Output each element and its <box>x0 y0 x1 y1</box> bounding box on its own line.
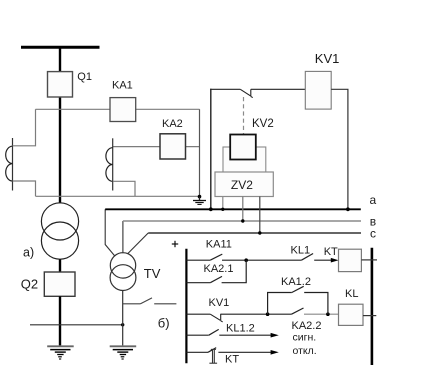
svg-text:KV1: KV1 <box>209 297 230 309</box>
relay KA1 <box>110 80 136 122</box>
current transformer TA1 <box>6 138 13 191</box>
svg-text:KV2: KV2 <box>252 118 274 130</box>
node neutral-TV <box>121 323 124 326</box>
svg-text:KL1: KL1 <box>291 245 311 257</box>
svg-text:сигн.: сигн. <box>293 332 317 344</box>
svg-text:KL1.2: KL1.2 <box>226 322 255 334</box>
relay KL <box>339 304 364 325</box>
svg-text:a): a) <box>23 245 34 259</box>
breaker Q2 <box>21 272 75 296</box>
dashed link KV2 <box>243 97 245 134</box>
svg-text:KL: KL <box>345 288 358 300</box>
wire TV ground lead <box>122 291 124 346</box>
svg-text:с: с <box>370 226 376 240</box>
svg-text:KV1: KV1 <box>315 51 340 66</box>
contact KL1 blade <box>301 254 313 261</box>
wire row4 left <box>186 334 208 336</box>
relay KT <box>339 249 362 271</box>
wire feeder mid <box>59 259 61 272</box>
svg-text:KA2.1: KA2.1 <box>204 263 234 275</box>
label plus <box>172 243 178 245</box>
contact KL1.2 blade <box>209 329 219 335</box>
wire KV2 rail <box>210 89 212 210</box>
svg-text:KA2.2: KA2.2 <box>292 320 322 332</box>
wire TV secondary out <box>154 303 176 305</box>
svg-text:TV: TV <box>144 266 161 281</box>
bus a <box>105 208 361 210</box>
wire KL out <box>363 315 376 317</box>
bus b <box>123 220 361 222</box>
contact KT blade <box>208 348 216 353</box>
node stub c <box>258 231 261 234</box>
node rail-bus a <box>209 207 213 211</box>
wire TV lead phase a <box>105 209 115 256</box>
current transformer TA2 <box>106 138 113 190</box>
relay KV2 <box>252 118 274 130</box>
wire ZV2 stub b <box>242 197 244 222</box>
timer symbol KT <box>209 349 217 363</box>
wire row1 to KT <box>314 259 332 261</box>
wire TA2 secondary bottom <box>113 181 135 196</box>
wire row3 left <box>186 313 210 315</box>
wire KA2 line <box>113 146 200 148</box>
contact KV2 blade (NC) <box>240 89 253 97</box>
contact KA2.1 blade <box>210 276 222 282</box>
contact KV1 blade (NC) <box>210 314 222 322</box>
contact KA2.2 blade <box>292 308 304 314</box>
breaker Q1 <box>48 71 92 97</box>
node row1 <box>244 258 248 262</box>
relay KV2 box <box>230 135 256 160</box>
wire row3 right <box>304 313 339 315</box>
node ground junction <box>198 195 202 199</box>
transformer T1 <box>41 203 78 259</box>
ground T1 <box>47 346 73 359</box>
wire KT out <box>361 259 377 261</box>
wire row2 right <box>222 260 247 283</box>
svg-text:KA1: KA1 <box>112 80 133 92</box>
ground relay common <box>193 197 206 205</box>
svg-text:KA11: KA11 <box>206 239 232 251</box>
node stub a <box>221 208 224 211</box>
wire feeder lower <box>59 296 61 345</box>
wire TV lead phase c <box>128 233 148 253</box>
branch KA1.2 <box>268 286 328 314</box>
wire row1 mid <box>222 259 301 261</box>
wire TA1 secondary bottom <box>13 181 36 196</box>
svg-text:Q2: Q2 <box>21 277 38 292</box>
wire KA drop to ground <box>199 109 201 197</box>
wire ZV2 stub a <box>222 197 224 210</box>
svg-text:откл.: откл. <box>293 345 317 357</box>
wire KV1 to bus a <box>331 89 348 209</box>
busbar top <box>21 46 100 49</box>
wire neutral link <box>30 324 123 326</box>
svg-text:б): б) <box>158 316 170 331</box>
svg-text:KA1.2: KA1.2 <box>281 276 311 288</box>
node KV1-bus a <box>346 207 350 211</box>
wire row1 left <box>186 259 210 261</box>
svg-text:KT: KT <box>225 354 239 366</box>
wire row4 arrow <box>219 334 271 336</box>
wire TA1 secondary top <box>13 109 36 146</box>
wire feeder upper <box>59 47 61 203</box>
arrow into KT <box>331 258 339 263</box>
node row3 right <box>326 312 330 316</box>
voltage transformer TV <box>110 253 161 291</box>
svg-text:KA2: KA2 <box>162 118 183 130</box>
device ZV2 <box>215 172 273 197</box>
rail right <box>371 248 374 365</box>
svg-text:a: a <box>370 193 377 207</box>
wire row5 left <box>186 351 208 353</box>
wire secondary return <box>36 195 200 197</box>
relay KA2 <box>160 118 186 159</box>
wire row3 mid <box>221 313 292 315</box>
wire ZV2 stub c <box>259 197 261 234</box>
rail left <box>185 249 187 363</box>
ground TV <box>110 346 137 359</box>
wire contact feed <box>210 88 240 90</box>
svg-text:KT: KT <box>324 246 338 258</box>
svg-text:ZV2: ZV2 <box>231 178 253 192</box>
wire row5 arrow <box>218 351 271 353</box>
contact KA11 blade <box>210 254 222 260</box>
bus c <box>148 232 361 234</box>
plinth KV2 <box>223 147 266 172</box>
wire contact to KV1 <box>251 88 305 90</box>
node stub b <box>241 219 244 222</box>
wire KA1 line <box>36 108 200 110</box>
wire TV lead phase b <box>122 221 124 253</box>
node row3 left <box>266 312 270 316</box>
relay KV1 <box>305 51 339 109</box>
contact TV secondary blade <box>141 298 153 304</box>
wire row2 left <box>186 282 210 284</box>
svg-text:Q1: Q1 <box>77 71 92 83</box>
wire TV secondary <box>123 303 141 305</box>
